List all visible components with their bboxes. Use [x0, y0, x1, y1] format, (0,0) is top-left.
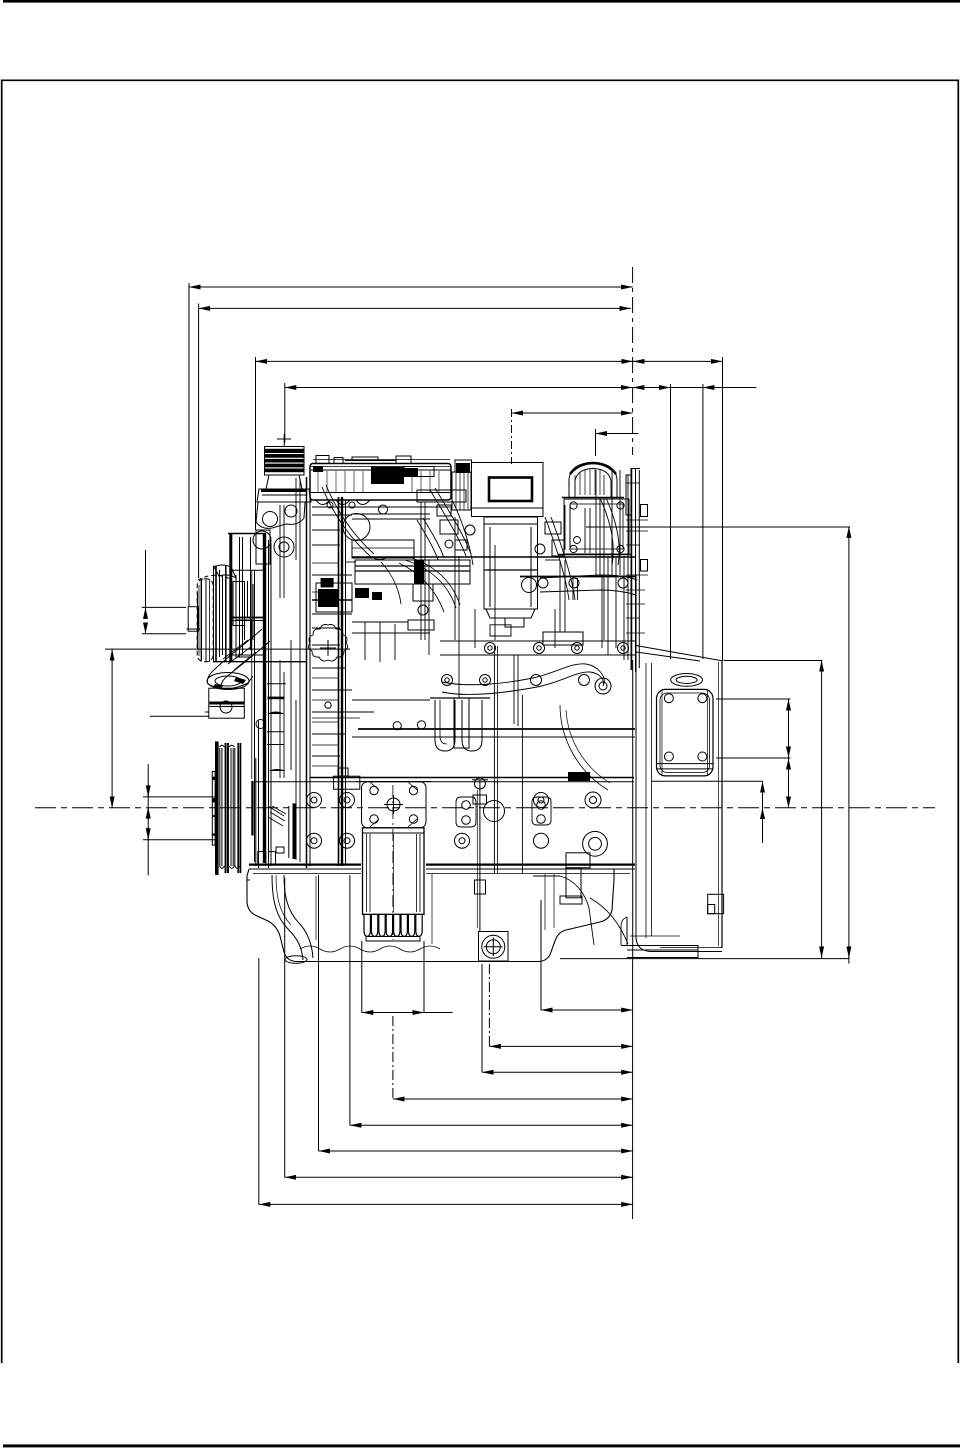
oil pan outline: [247, 869, 614, 962]
belt dark bar: [251, 570, 254, 862]
oil filter canister: [363, 785, 425, 941]
lifting bracket arm: [490, 575, 637, 636]
lower small boxes: [256, 702, 426, 789]
section hatch wedge: [268, 806, 286, 826]
page top rule: [3, 0, 960, 3]
exhaust elbow duct: [207, 629, 270, 690]
bolt row 2: [440, 632, 635, 655]
left dim L2: [142, 550, 186, 634]
rocker bumps row: [316, 500, 370, 508]
dimension D3: [256, 357, 723, 661]
left dim L3: [143, 764, 216, 875]
bolt row 3 lower: [442, 578, 612, 695]
front cover dark edge: [339, 497, 346, 866]
left dim L1: [105, 649, 350, 808]
block short horizontals: [312, 515, 408, 766]
crank pulley grooves: [215, 741, 241, 875]
mid band extra: [352, 571, 470, 662]
front box verticals: [421, 502, 602, 874]
ENGINE: [150, 434, 724, 963]
rear dome turbo: [562, 463, 624, 498]
fuel line fittings cluster: [352, 490, 564, 558]
oil pan rail: [249, 865, 635, 874]
thermostat housing: [253, 502, 305, 564]
vertical centerline lower: [632, 962, 634, 1219]
pear plate 1: [456, 797, 476, 827]
injection pump body: [452, 460, 543, 517]
intake manifold band: [316, 560, 470, 612]
front cover bar right: [289, 803, 297, 859]
bottom dim B8: [285, 878, 633, 1177]
oil filter head plate: [356, 782, 431, 828]
pan interior ribs: [316, 874, 554, 944]
left block column verticals: [280, 478, 300, 862]
water pump circle: [343, 505, 388, 541]
oil drain boss: [479, 932, 509, 962]
bottom dim B5: [393, 1016, 633, 1099]
bottom dim B6: [350, 875, 633, 1125]
rear vertical line cluster: [560, 470, 628, 660]
bottom dim B2: [541, 900, 633, 1010]
right dim R1 overall height: [560, 526, 850, 963]
air cleaner striped canister: [257, 434, 311, 502]
dimension D6: [596, 429, 639, 456]
right dim R3 chain: [716, 699, 791, 808]
pulley plate stack: [213, 534, 306, 663]
valve cover: [307, 456, 452, 869]
right dim R4: [651, 781, 762, 843]
bottom dim B4: [482, 964, 633, 1072]
fuel filter canister: [484, 517, 538, 627]
dipstick: [472, 778, 488, 931]
dark bracket block bottom: [568, 772, 590, 781]
side cover verticals: [514, 655, 522, 874]
pushrod verticals rear: [545, 505, 590, 560]
dimension D4 chain: [285, 383, 757, 659]
horizontal centerline: [35, 807, 935, 809]
dimension D2: [199, 304, 631, 579]
pear plate 2: [532, 797, 551, 825]
pan front J pipe: [272, 875, 313, 963]
block mid horizontals: [255, 700, 635, 782]
flywheel housing: [633, 574, 722, 962]
right dim R2: [724, 660, 823, 958]
pump lower body: [408, 584, 434, 630]
vertical centerline upper: [632, 267, 634, 455]
cover plate bracket rounded: [657, 689, 714, 776]
crank hub plate: [212, 771, 215, 845]
fuel pump boss circle: [484, 801, 505, 822]
exhaust manifold runners: [430, 698, 490, 751]
bottom dim B1 filter dia: [362, 941, 453, 1013]
bottom dim B7: [319, 875, 633, 1151]
small service square: [708, 894, 724, 913]
rear plate rungs: [626, 483, 648, 633]
pump S fuel lines: [381, 557, 460, 612]
block top joint line: [352, 556, 635, 558]
tensioner cross: [320, 640, 336, 656]
oil cooler scalloped knob: [308, 625, 347, 662]
lifting eye ellipse: [671, 674, 703, 687]
dimension D1: [189, 283, 633, 606]
page bottom rule: [3, 1444, 960, 1447]
crankcase bolt row y841: [307, 831, 608, 856]
cam follower bolt row 1: [522, 578, 629, 593]
timing cover dark column: [256, 533, 271, 868]
block front flange ticks: [267, 684, 286, 771]
rear plate double edge: [626, 468, 648, 672]
bottom dim B9: [259, 958, 633, 1204]
fan hub disc: [197, 579, 213, 662]
flywheel arc: [560, 705, 608, 790]
fan blade profile upper: [214, 565, 236, 578]
head gasket line: [520, 576, 635, 578]
rear mount foot: [621, 917, 698, 958]
flywheel housing seams: [646, 663, 652, 938]
crankcase bolt row y800: [307, 792, 602, 808]
alternator: [150, 688, 244, 718]
ladder black blob: [321, 578, 334, 587]
starter / rear mount: [533, 853, 628, 945]
injector hose bundle: [322, 485, 619, 600]
rear gear housing: [558, 499, 632, 555]
fan hub box (left small box): [187, 607, 201, 632]
bolt boxes under pulley: [258, 847, 284, 864]
fan blade dashes: [198, 575, 230, 580]
bottom dim B3: [489, 964, 632, 1046]
dimension D5: [512, 409, 633, 464]
